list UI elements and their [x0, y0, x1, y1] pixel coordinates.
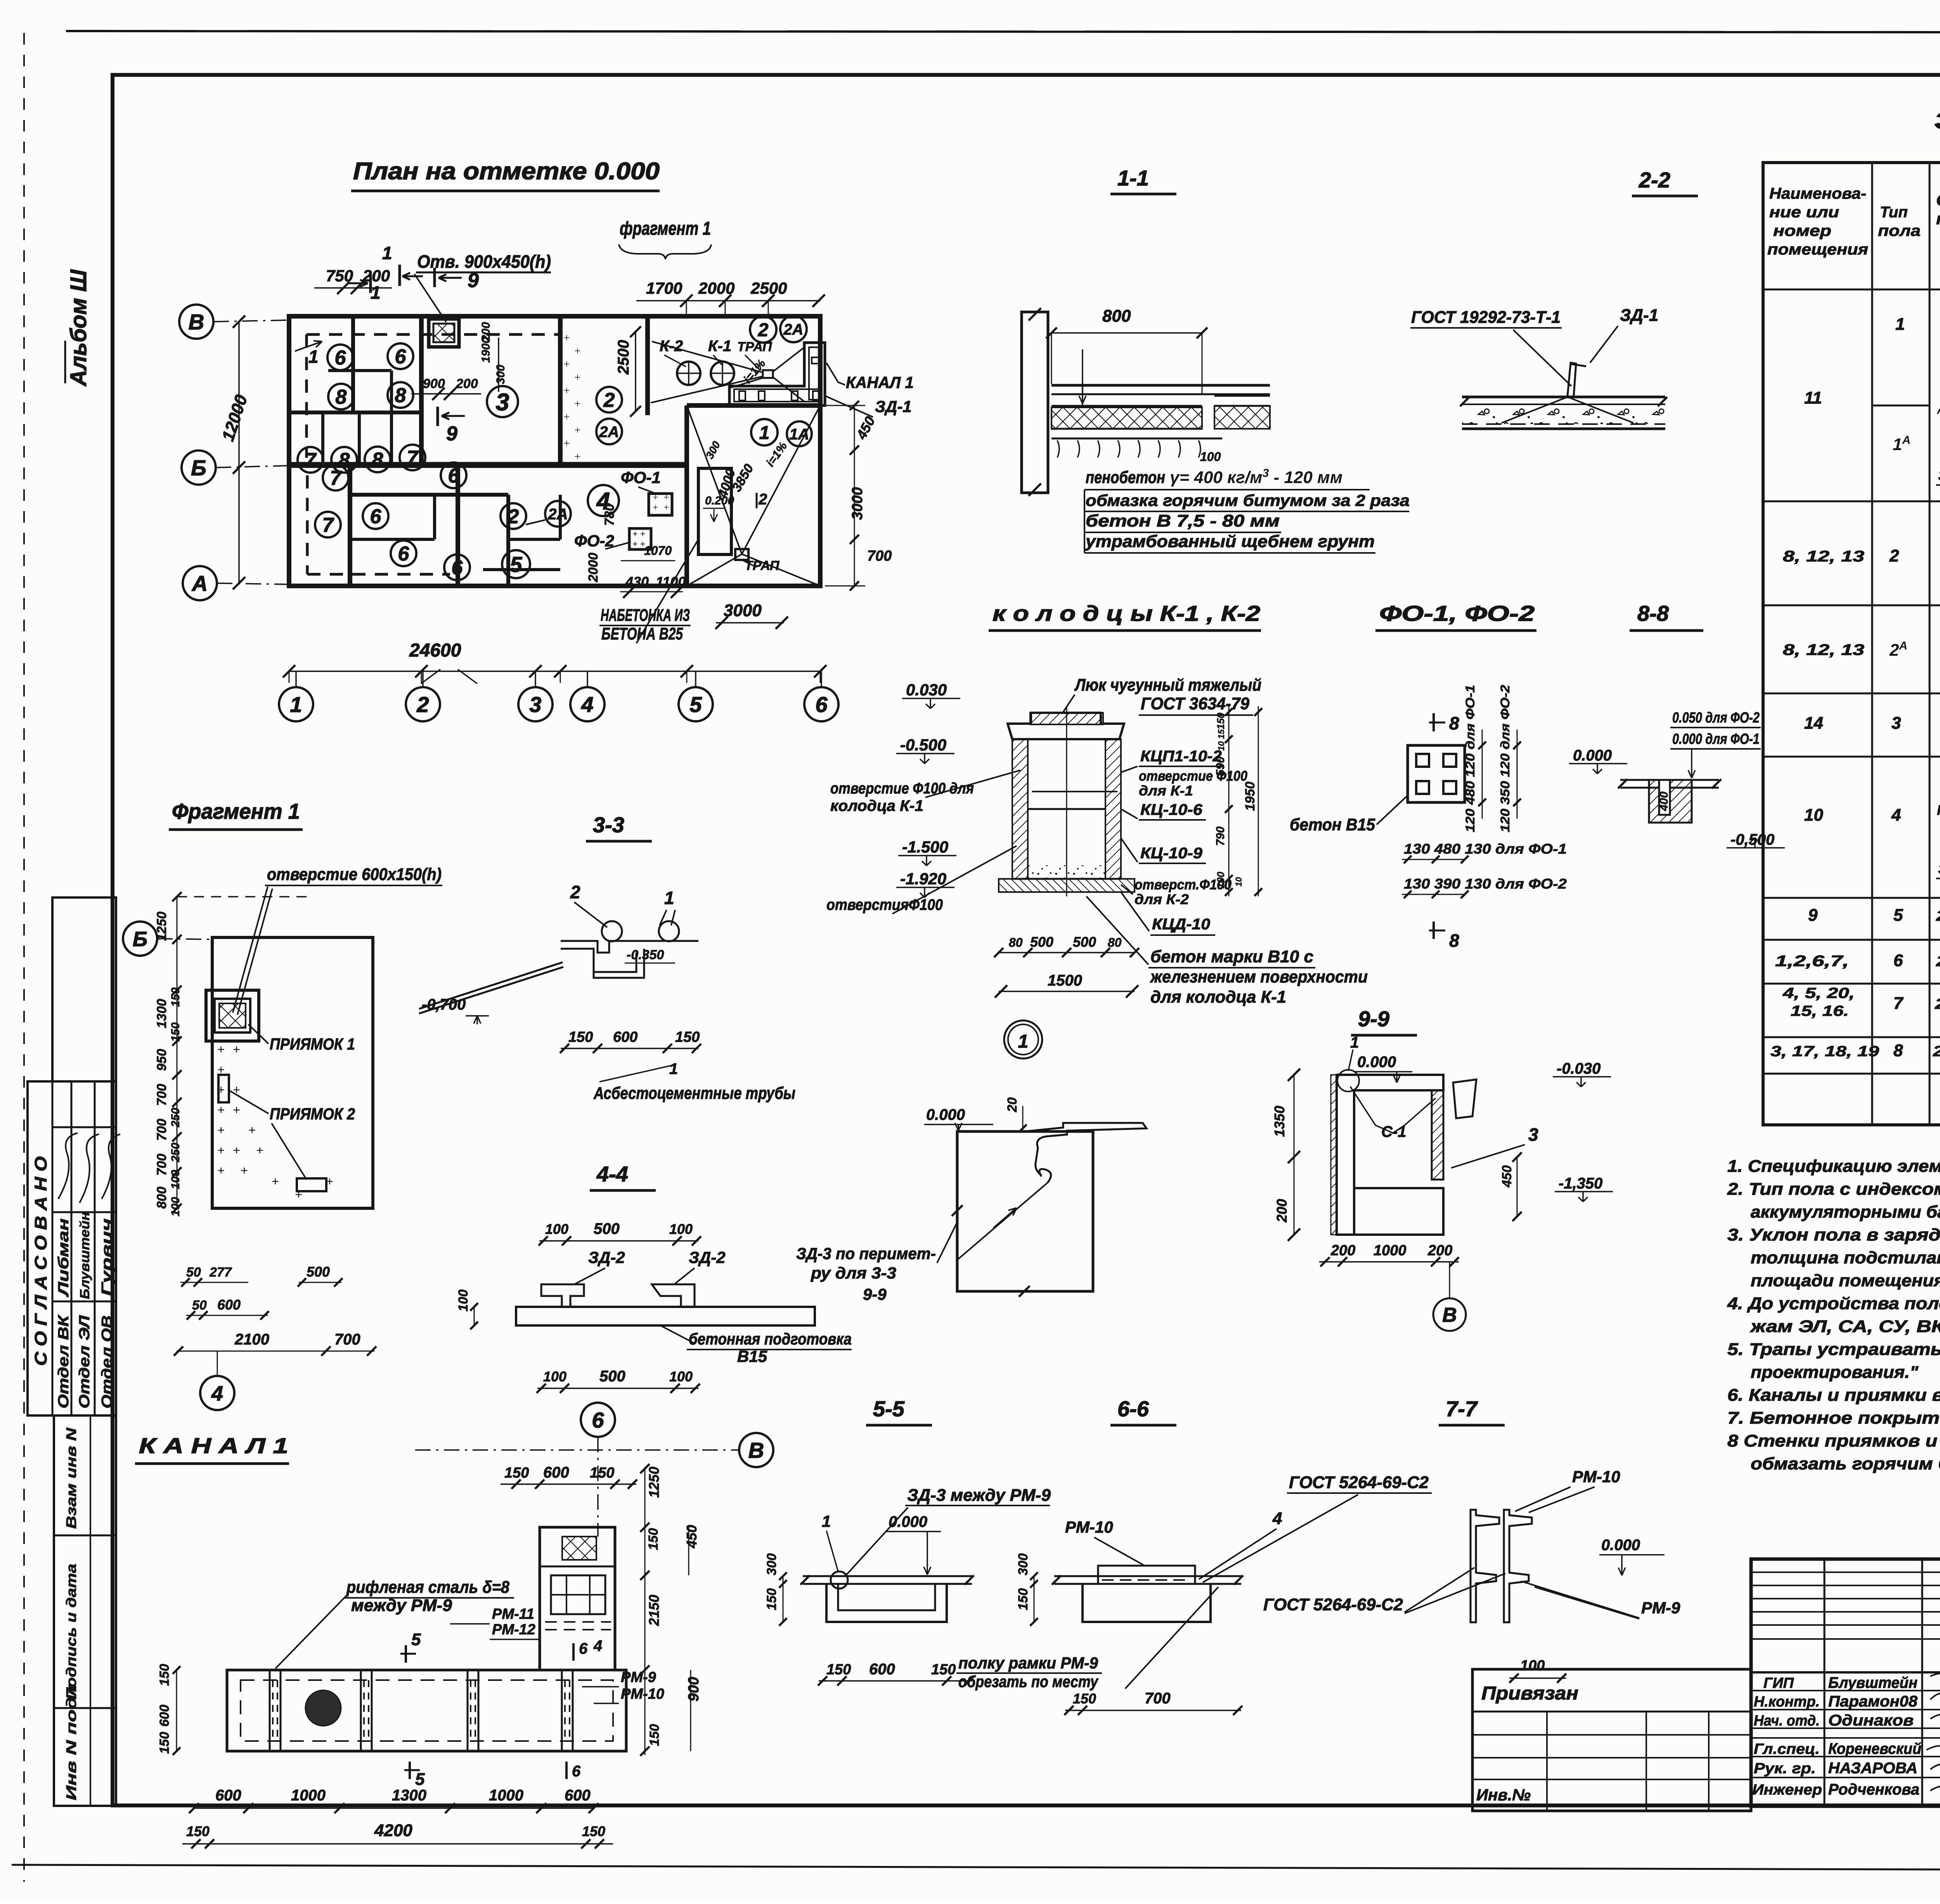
svg-text:8: 8	[1449, 713, 1459, 733]
svg-text:50: 50	[186, 1265, 201, 1280]
svg-text:2А: 2А	[783, 321, 803, 338]
svg-text:Одинаков: Одинаков	[1828, 1712, 1914, 1729]
4-4 elements	[541, 1284, 584, 1307]
svg-text:1-1: 1-1	[1117, 166, 1149, 190]
svg-text:+: +	[563, 358, 570, 371]
svg-text:150: 150	[157, 1664, 172, 1686]
приямок2 bottom rect	[297, 1178, 326, 1191]
svg-text:700: 700	[334, 1331, 360, 1348]
svg-text:1: 1	[1895, 315, 1905, 334]
svg-text:3: 3	[496, 389, 509, 416]
svg-text:6: 6	[452, 557, 463, 579]
svg-text:5. Трапы устраивать по деталям: 5. Трапы устраивать по деталям Д-37, Д-3…	[1727, 1340, 1940, 1359]
7-7 drawing double T	[1471, 1510, 1499, 1622]
svg-text:150: 150	[764, 1588, 779, 1610]
sheet bottom thin line	[12, 1865, 1940, 1871]
svg-text:1,2,6,7,: 1,2,6,7,	[1775, 953, 1849, 970]
svg-text:150: 150	[826, 1661, 851, 1678]
circle mark 1 below well	[1004, 1020, 1042, 1059]
svg-text:250В; 2,244-1 В.4: 250В; 2,244-1 В.4	[1933, 1043, 1940, 1060]
svg-text:900: 900	[686, 1677, 702, 1701]
svg-text:толщина подстилающего слоя до: толщина подстилающего слоя должна быть о…	[1751, 1248, 1940, 1267]
svg-text:150: 150	[157, 1732, 172, 1754]
section mark 9 upper	[433, 268, 436, 287]
svg-text:7: 7	[330, 467, 342, 490]
table outer frame	[1763, 163, 1940, 1125]
svg-text:6: 6	[448, 465, 460, 487]
svg-text:245;2.244-1. В.4: 245;2.244-1. В.4	[1936, 908, 1940, 924]
svg-text:γ= 400 кг/м3 - 120 мм: γ= 400 кг/м3 - 120 мм	[1170, 467, 1342, 487]
svg-text:Наименова-: Наименова-	[1769, 185, 1866, 202]
svg-text:ру для 3-3: ру для 3-3	[811, 1264, 896, 1282]
8-8 drawing	[1620, 779, 1719, 781]
svg-text:фрагмент 1: фрагмент 1	[620, 218, 711, 239]
svg-text:600: 600	[565, 1787, 591, 1804]
svg-text:ЗД-1: ЗД-1	[1620, 306, 1658, 325]
svg-text:+ +: + +	[632, 539, 645, 549]
svg-text:5: 5	[415, 1770, 425, 1789]
svg-text:3000: 3000	[724, 601, 762, 620]
svg-text:1000: 1000	[1374, 1242, 1406, 1259]
svg-text:Фрагмент 1: Фрагмент 1	[172, 799, 300, 823]
svg-text:700: 700	[154, 1084, 169, 1106]
svg-text:8 Стенки приямков и каналов,: 8 Стенки приямков и каналов, соприкасающ…	[1727, 1431, 1940, 1450]
svg-text:7: 7	[1893, 994, 1904, 1013]
svg-text:7. Бетонное покрытие полов ти: 7. Бетонное покрытие полов типа 1, 1А, 3…	[1727, 1409, 1940, 1428]
svg-text:150: 150	[647, 1724, 662, 1746]
svg-text:бетон В15: бетон В15	[1290, 815, 1375, 834]
kanal right dim stack	[644, 1469, 646, 1755]
svg-text:1: 1	[1350, 1034, 1359, 1051]
svg-text:5: 5	[510, 552, 522, 577]
svg-text:8-8: 8-8	[1637, 601, 1669, 625]
title block outer	[1751, 1559, 1940, 1806]
svg-text:500: 500	[1073, 934, 1096, 950]
svg-text:3. Уклон пола в зарядной созд: 3. Уклон пола в зарядной создавать плани…	[1727, 1225, 1940, 1244]
svg-text:РМ-12: РМ-12	[492, 1622, 535, 1638]
section mark 9 lower	[436, 407, 439, 426]
fragment circle 4	[200, 1376, 234, 1410]
svg-text:-0.030: -0.030	[1557, 1060, 1600, 1077]
svg-text:100: 100	[669, 1369, 693, 1384]
svg-text:9: 9	[1808, 906, 1818, 925]
svg-text:8: 8	[395, 385, 406, 407]
left block dashed inner outline	[305, 334, 308, 458]
svg-text:+: +	[295, 1188, 302, 1202]
svg-text:Защитный слой: Защитный слой	[1938, 861, 1940, 877]
svg-text:обмазка горячим битумом за 2 р: обмазка горячим битумом за 2 раза	[1086, 491, 1410, 509]
svg-text:150: 150	[504, 1465, 529, 1481]
1-1 ground squiggles	[1057, 440, 1059, 457]
svg-text:400: 400	[1658, 792, 1670, 811]
svg-text:НАЗАРОВА: НАЗАРОВА	[1828, 1760, 1917, 1777]
svg-text:РМ-9: РМ-9	[621, 1669, 656, 1686]
9-9 grid circle В below	[1433, 1298, 1466, 1331]
svg-text:К А Н А Л 1: К А Н А Л 1	[139, 1433, 288, 1458]
svg-text:пола: пола	[1878, 222, 1921, 239]
plan middle wall	[289, 463, 687, 468]
svg-text:Защитный слой: Защитный слой	[1938, 468, 1940, 483]
svg-text:100: 100	[1520, 1658, 1545, 1674]
svg-text:Парамон08: Парамон08	[1828, 1693, 1918, 1710]
svg-text:6: 6	[592, 1408, 604, 1432]
svg-text:Привязан: Привязан	[1481, 1683, 1578, 1704]
table header texts	[1763, 289, 1940, 291]
svg-text:проектирования.": проектирования."	[1751, 1363, 1919, 1382]
svg-text:Нач. отд.: Нач. отд.	[1754, 1713, 1820, 1729]
svg-text:2: 2	[570, 882, 580, 902]
svg-text:+: +	[217, 1143, 225, 1158]
left block inner walls	[289, 411, 421, 414]
room circles top-left	[327, 345, 353, 370]
svg-text:Блувштейн: Блувштейн	[78, 1212, 92, 1299]
svg-text:5-5: 5-5	[873, 1396, 905, 1421]
svg-text:1: 1	[759, 423, 770, 443]
svg-text:6: 6	[579, 1640, 588, 1657]
svg-text:для колодца К-1: для колодца К-1	[1150, 988, 1286, 1007]
svg-text:2000: 2000	[698, 279, 734, 297]
svg-text:отверстие Ф100: отверстие Ф100	[1139, 768, 1247, 784]
svg-text:Взам инв N: Взам инв N	[63, 1428, 79, 1529]
svg-text:130 390 130 для ФО-2: 130 390 130 для ФО-2	[1404, 876, 1567, 892]
svg-text:10: 10	[1234, 877, 1244, 887]
svg-text:+: +	[217, 1103, 225, 1117]
svg-text:200: 200	[1330, 1242, 1355, 1259]
svg-text:обрезать по месту: обрезать по месту	[958, 1672, 1099, 1691]
svg-text:0.000: 0.000	[1601, 1537, 1640, 1554]
svg-text:+: +	[217, 1083, 225, 1097]
svg-text:8: 8	[336, 386, 347, 409]
svg-text:2: 2	[758, 491, 767, 508]
svg-text:отверстие 600х150(h): отверстие 600х150(h)	[267, 865, 442, 884]
svg-text:4: 4	[581, 692, 593, 717]
svg-text:Отдел ВК: Отдел ВК	[55, 1314, 72, 1409]
svg-text:между РМ-9: между РМ-9	[351, 1596, 452, 1615]
svg-text:-1,350: -1,350	[1559, 1175, 1602, 1192]
svg-text:6. Каналы и приямки выполнить: 6. Каналы и приямки выполнить из бетона …	[1727, 1386, 1940, 1405]
svg-text:14: 14	[1804, 714, 1823, 733]
svg-text:4: 4	[593, 1637, 602, 1655]
left stamp soglasovano box	[28, 1081, 116, 1415]
svg-text:площади помещения.: площади помещения.	[1751, 1271, 1940, 1290]
svg-text:8: 8	[1449, 930, 1459, 951]
svg-text:1070: 1070	[644, 544, 672, 558]
svg-text:1: 1	[822, 1512, 831, 1530]
svg-text:Схема пола или: Схема пола или	[1936, 191, 1940, 209]
2-2 floor slab with speckles	[1462, 396, 1665, 398]
svg-text:150: 150	[568, 1029, 593, 1045]
svg-text:1: 1	[308, 346, 319, 367]
svg-text:для К-1: для К-1	[1139, 783, 1193, 799]
svg-text:150: 150	[1073, 1691, 1096, 1706]
svg-text:500: 500	[594, 1220, 620, 1237]
svg-text:6: 6	[398, 543, 410, 565]
sheet outer left dash line	[23, 33, 25, 1882]
svg-text:2500: 2500	[750, 279, 787, 297]
canal channel top right in plan	[729, 343, 825, 405]
svg-text:ЗД-3 по перимет-: ЗД-3 по перимет-	[796, 1244, 936, 1263]
svg-text:3000: 3000	[849, 487, 866, 520]
svg-text:1. Спецификацию элементов к да: 1. Спецификацию элементов к данному лист…	[1727, 1157, 1940, 1176]
svg-text:500: 500	[307, 1264, 330, 1280]
svg-text:+: +	[663, 502, 669, 513]
svg-text:1: 1	[669, 1060, 678, 1078]
svg-text:4200: 4200	[374, 1821, 412, 1840]
svg-text:5: 5	[411, 1630, 421, 1649]
svg-text:+: +	[574, 424, 581, 437]
well section drawing	[1012, 739, 1028, 879]
svg-text:4, 5, 20,: 4, 5, 20,	[1782, 985, 1855, 1001]
section marks 5	[405, 1645, 407, 1663]
svg-text:R: R	[1937, 802, 1940, 818]
section marks 6 4	[572, 1643, 575, 1661]
svg-text:Либман: Либман	[55, 1218, 72, 1298]
svg-text:80: 80	[1108, 936, 1122, 949]
svg-text:колодца К-1: колодца К-1	[830, 797, 923, 814]
fragment приямок1 square	[206, 990, 259, 1041]
svg-text:20: 20	[1005, 1097, 1020, 1112]
svg-text:700: 700	[867, 548, 892, 564]
svg-text:ГОСТ 5264-69-С2: ГОСТ 5264-69-С2	[1289, 1473, 1429, 1492]
svg-text:1300: 1300	[154, 999, 169, 1028]
signature rows	[1751, 1690, 1940, 1691]
svg-text:200: 200	[1427, 1242, 1452, 1259]
svg-text:ЗД-3 между РМ-9: ЗД-3 между РМ-9	[907, 1486, 1051, 1505]
svg-text:1900: 1900	[480, 337, 492, 363]
svg-text:ПРИЯМОК 2: ПРИЯМОК 2	[270, 1105, 355, 1123]
svg-text:К-1: К-1	[708, 338, 731, 355]
svg-text:120 350 120 для ФО-2: 120 350 120 для ФО-2	[1498, 685, 1512, 832]
1-1 wall bar	[1022, 312, 1048, 493]
svg-text:500: 500	[599, 1368, 625, 1385]
svg-text:РМ-10: РМ-10	[1572, 1467, 1620, 1486]
svg-text:100: 100	[669, 1221, 693, 1237]
svg-text:4: 4	[1272, 1509, 1282, 1528]
svg-text:В: В	[1442, 1304, 1457, 1327]
section mark 1 top-left of plan	[369, 272, 372, 293]
svg-text:450: 450	[1500, 1165, 1514, 1188]
title block left columns	[1824, 1559, 1826, 1806]
svg-text:+: +	[663, 492, 669, 503]
svg-text:1300: 1300	[392, 1787, 426, 1804]
svg-text:обмазать горячим битумом за 2: обмазать горячим битумом за 2раза.	[1751, 1454, 1940, 1473]
svg-text:Отдел ЭЛ: Отдел ЭЛ	[76, 1315, 93, 1409]
title block left small rows	[1751, 1571, 1940, 1573]
lower band circles	[323, 465, 348, 490]
svg-text:пенобетон: пенобетон	[1086, 468, 1165, 487]
lower band rooms	[348, 466, 352, 586]
svg-text:ГИП: ГИП	[1763, 1675, 1794, 1691]
svg-text:24600: 24600	[409, 640, 461, 661]
svg-text:ФО-1, ФО-2: ФО-1, ФО-2	[1379, 601, 1535, 625]
svg-text:0.000: 0.000	[926, 1106, 965, 1123]
svg-text:+: +	[574, 345, 581, 357]
1-1 floor slabs	[1051, 384, 1270, 387]
svg-text:Альбом Ш: Альбом Ш	[66, 269, 91, 387]
svg-text:600: 600	[157, 1705, 172, 1727]
kanal grid circle 6	[581, 1403, 615, 1437]
svg-text:отверстие Ф100 для: отверстие Ф100 для	[830, 780, 974, 797]
signature squiggles	[58, 1133, 78, 1199]
signature squiggles title block	[1930, 1674, 1940, 1685]
svg-text:1: 1	[664, 888, 674, 908]
svg-text:+: +	[574, 371, 581, 384]
left stamp top empty box	[52, 897, 116, 1081]
svg-text:2-2: 2-2	[1639, 168, 1670, 192]
svg-text:9: 9	[446, 423, 457, 445]
svg-text:2: 2	[1889, 546, 1899, 565]
svg-text:5: 5	[1893, 906, 1903, 925]
svg-text:Блувштейн: Блувштейн	[1828, 1674, 1917, 1691]
svg-text:2000: 2000	[586, 553, 601, 582]
svg-text:600: 600	[217, 1297, 241, 1313]
svg-text:1: 1	[382, 243, 392, 263]
svg-text:ЗД-2: ЗД-2	[689, 1248, 726, 1266]
svg-text:0.030: 0.030	[906, 681, 947, 699]
svg-text:7: 7	[305, 449, 317, 472]
9-9 trap shape right	[1453, 1079, 1476, 1118]
svg-text:КЦП1-10-2: КЦП1-10-2	[1140, 748, 1222, 765]
FO square plan	[1408, 745, 1465, 802]
svg-text:0.000: 0.000	[889, 1513, 927, 1530]
svg-text:Гурвич: Гурвич	[99, 1218, 115, 1296]
svg-text:номер: номер	[1773, 222, 1831, 239]
svg-text:+: +	[217, 1063, 225, 1077]
svg-text:-1.500: -1.500	[902, 838, 948, 856]
svg-text:отверстияФ100: отверстияФ100	[826, 896, 943, 913]
svg-text:Гл.спец.: Гл.спец.	[1754, 1741, 1820, 1757]
svg-text:Кореневский: Кореневский	[1828, 1740, 1921, 1757]
svg-text:500: 500	[1030, 934, 1053, 950]
svg-text:15, 16.: 15, 16.	[1791, 1003, 1849, 1019]
svg-text:ФО-1: ФО-1	[621, 468, 661, 487]
svg-text:100: 100	[543, 1369, 566, 1384]
svg-text:6: 6	[1893, 951, 1903, 970]
svg-text:КЦ-10-6: КЦ-10-6	[1140, 801, 1203, 818]
svg-text:4. До устройства полов проложи: 4. До устройства полов проложить все ком…	[1727, 1294, 1940, 1313]
plan outer walls	[289, 316, 820, 586]
svg-text:600: 600	[613, 1029, 637, 1045]
svg-text:+: +	[574, 397, 581, 410]
i=1pct slope label	[750, 316, 776, 343]
section mark 8 above below	[1432, 713, 1435, 731]
svg-text:8, 12, 13: 8, 12, 13	[1783, 641, 1864, 658]
svg-text:КАНАЛ 1: КАНАЛ 1	[846, 373, 914, 392]
slope diagonals to trap	[687, 405, 742, 554]
svg-text:250: 250	[169, 1108, 182, 1128]
svg-text:200: 200	[456, 376, 478, 391]
svg-text:2500: 2500	[615, 340, 632, 375]
svg-text:100: 100	[1215, 871, 1226, 889]
svg-text:277: 277	[209, 1265, 232, 1280]
svg-text:600: 600	[215, 1787, 241, 1804]
svg-text:9-9: 9-9	[1358, 1007, 1389, 1031]
svg-text:+: +	[233, 1143, 240, 1158]
svg-text:-0,700: -0,700	[422, 996, 466, 1013]
svg-text:150: 150	[1016, 1588, 1031, 1610]
svg-text:Родченкова: Родченкова	[1828, 1781, 1919, 1798]
svg-text:Инженер: Инженер	[1752, 1782, 1822, 1798]
svg-text:РМ-10: РМ-10	[1065, 1518, 1113, 1536]
room2 circles	[596, 387, 622, 412]
svg-text:150: 150	[590, 1465, 614, 1481]
svg-text:Отв. 900х450(h): Отв. 900х450(h)	[417, 251, 551, 272]
svg-text:Отдел ОВ: Отдел ОВ	[99, 1315, 115, 1409]
svg-text:3: 3	[1528, 1124, 1538, 1145]
svg-text:9-9: 9-9	[863, 1285, 887, 1303]
well right dim chains	[1228, 706, 1230, 896]
svg-text:+: +	[256, 1143, 263, 1158]
svg-text:10 15: 10 15	[1216, 729, 1226, 751]
svg-text:1950: 1950	[1243, 781, 1258, 811]
svg-text:к о л о д ц ы К-1 , К-2: к о л о д ц ы К-1 , К-2	[993, 601, 1260, 625]
svg-text:-1.920: -1.920	[900, 870, 946, 888]
svg-text:430: 430	[625, 574, 649, 590]
svg-text:рифленая сталь δ=8: рифленая сталь δ=8	[346, 1578, 509, 1597]
svg-text:3: 3	[529, 692, 541, 717]
svg-text:2: 2	[416, 692, 429, 717]
svg-text:2: 2	[508, 506, 519, 528]
svg-text:150: 150	[646, 1528, 661, 1550]
svg-text:ние или: ние или	[1769, 204, 1839, 221]
svg-text:250: 250	[169, 1143, 182, 1162]
svg-text:600: 600	[543, 1464, 569, 1481]
svg-text:+: +	[248, 1123, 256, 1138]
svg-text:номер узла: номер узла	[1936, 210, 1940, 228]
svg-text:1: 1	[371, 282, 381, 303]
svg-text:1000: 1000	[291, 1787, 326, 1804]
svg-text:ТРАП: ТРАП	[745, 558, 780, 573]
5-5 drawing	[803, 1575, 972, 1577]
svg-text:+: +	[326, 1175, 333, 1189]
svg-text:Инв.№: Инв.№	[1476, 1786, 1531, 1804]
svg-text:РМ-10: РМ-10	[621, 1686, 664, 1702]
plan internal vertical walls top	[419, 316, 424, 466]
svg-text:700: 700	[154, 1154, 169, 1176]
svg-text:0.050 для ФО-2: 0.050 для ФО-2	[1672, 710, 1760, 726]
sheet outer top line	[66, 31, 1940, 33]
svg-text:100: 100	[456, 1289, 471, 1311]
svg-text:1350: 1350	[1271, 1106, 1287, 1137]
svg-text:600: 600	[869, 1661, 895, 1678]
svg-text:ФО-2: ФО-2	[574, 532, 614, 550]
svg-text:+: +	[653, 502, 658, 513]
svg-text:6: 6	[572, 1763, 581, 1780]
svg-text:200: 200	[1274, 1199, 1290, 1223]
lower dashed outline	[306, 475, 309, 574]
table column lines	[1871, 163, 1873, 1125]
svg-text:240; 2.244-1 В.4: 240; 2.244-1 В.4	[1936, 953, 1940, 970]
svg-text:11: 11	[1804, 388, 1822, 407]
svg-text:РМ-9: РМ-9	[1641, 1599, 1680, 1617]
square detail with diagonal	[957, 1131, 1093, 1291]
svg-text:аккумуляторными батареями.: аккумуляторными батареями.	[1751, 1202, 1940, 1221]
svg-text:700: 700	[154, 1119, 169, 1141]
svg-text:Тип: Тип	[1880, 204, 1908, 221]
svg-text:2А: 2А	[599, 423, 619, 440]
svg-text:300: 300	[494, 365, 507, 384]
svg-text:РМ-11: РМ-11	[492, 1606, 534, 1622]
svg-text:ГОСТ 19292-73-Т-1: ГОСТ 19292-73-Т-1	[1411, 308, 1561, 327]
svg-text:7: 7	[407, 447, 419, 470]
svg-text:100: 100	[1200, 450, 1221, 464]
svg-text:+: +	[563, 384, 570, 397]
lower stamp cells	[54, 1415, 116, 1806]
svg-text:Н.контр.: Н.контр.	[1754, 1694, 1820, 1710]
svg-text:4: 4	[1891, 806, 1901, 825]
privyazan block	[1472, 1669, 1751, 1811]
svg-text:ГОСТ 5264-69-С2: ГОСТ 5264-69-С2	[1263, 1595, 1403, 1614]
